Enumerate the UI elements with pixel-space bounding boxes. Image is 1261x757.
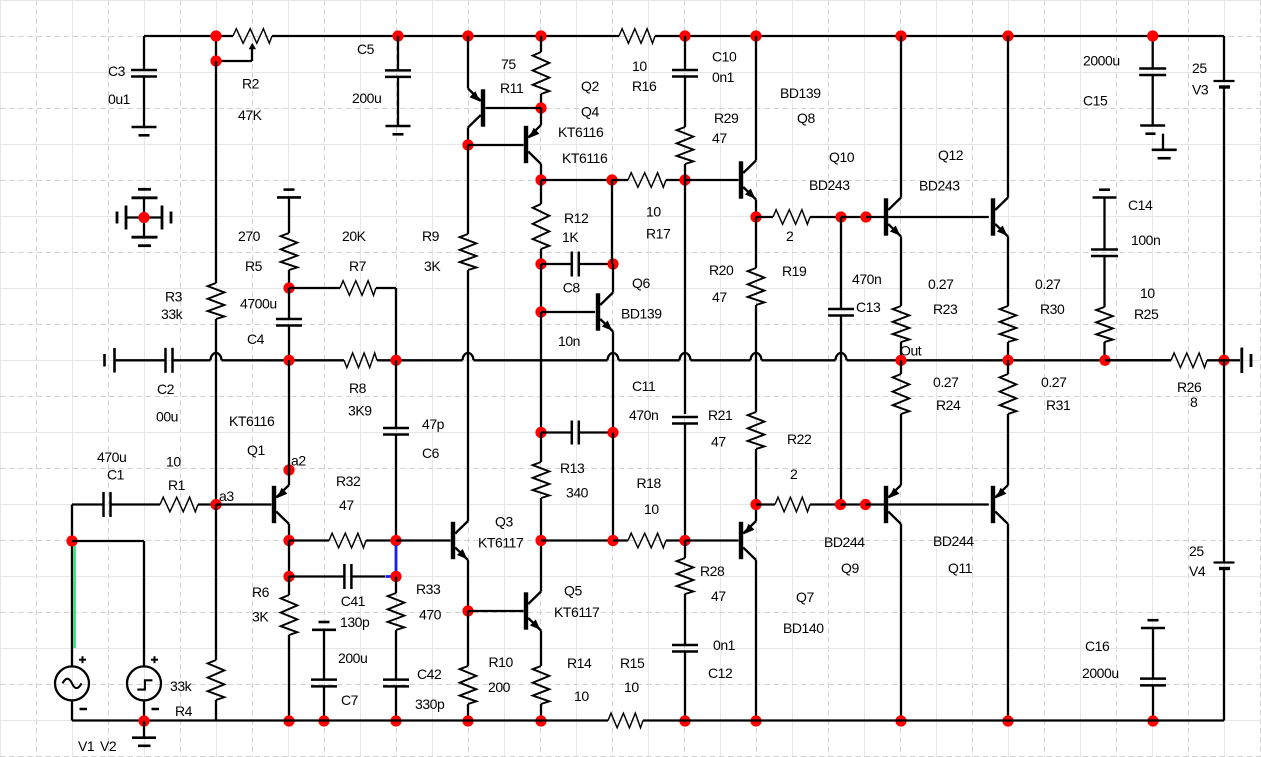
label 47 (R20)	[712, 289, 727, 305]
svg-text:75: 75	[501, 56, 516, 72]
wire Q4 node to R17 node	[541, 179, 612, 181]
node Q10C/top rail	[895, 30, 906, 41]
node C12/rail	[679, 715, 690, 726]
wire C2 to rail	[173, 359, 211, 361]
label 330p	[415, 696, 445, 712]
svg-text:C4: C4	[247, 331, 265, 347]
label C16	[1085, 638, 1110, 654]
inverted ground (C14)	[1093, 190, 1117, 198]
svg-text:100n: 100n	[1131, 232, 1160, 248]
wire Q6 collector	[612, 264, 614, 293]
wire Q8 emitter	[755, 200, 757, 218]
label 10 (R1)	[166, 454, 181, 470]
label Q5	[564, 583, 582, 599]
svg-text:V3: V3	[1192, 82, 1209, 98]
wire R17 node down	[684, 180, 686, 414]
node C8 right	[607, 258, 618, 269]
label R11	[500, 80, 524, 96]
capacitor C8	[541, 252, 613, 277]
label R20	[709, 262, 734, 278]
wire Q5 base	[468, 610, 524, 612]
wire R9 to Q3 collector	[467, 270, 469, 521]
label 200u (C5)	[352, 90, 381, 106]
resistor R14	[533, 631, 550, 721]
resistor R29	[677, 127, 694, 180]
svg-text:R10: R10	[489, 654, 514, 670]
label C2	[157, 381, 175, 397]
label 10 (R18)	[644, 501, 659, 517]
svg-text:R9: R9	[422, 228, 440, 244]
wire Q7 base	[685, 539, 739, 541]
svg-text:200u: 200u	[352, 90, 381, 106]
star ground symbol	[117, 189, 171, 245]
wire C8 node down to Q6 base node	[540, 264, 542, 312]
svg-text:R30: R30	[1040, 301, 1065, 317]
label 470 (R33)	[419, 607, 442, 623]
capacitor C13	[828, 217, 854, 505]
wire Q6 emitter down	[612, 332, 614, 433]
node Q8C/top rail	[750, 30, 761, 41]
wire bottom supply rail	[72, 719, 1224, 721]
svg-text:R32: R32	[336, 473, 361, 489]
ground (V2)	[132, 721, 156, 746]
svg-text:C13: C13	[856, 299, 881, 315]
svg-text:R6: R6	[252, 584, 270, 600]
svg-text:R12: R12	[564, 210, 589, 226]
wire V4 to bottom rail	[1223, 570, 1225, 721]
svg-text:0n1: 0n1	[713, 637, 736, 653]
resistor R17	[612, 173, 685, 188]
label 270	[238, 228, 261, 244]
label BD243 (Q10)	[809, 177, 850, 193]
svg-text:R4: R4	[175, 703, 193, 719]
wire rail to a2	[288, 360, 290, 470]
capacitor C7	[311, 631, 337, 721]
node star ground	[138, 212, 149, 223]
node R2 wiper	[210, 55, 221, 66]
node C16/rail	[1147, 715, 1158, 726]
node V1/V2 stub	[66, 535, 77, 546]
svg-text:C8: C8	[563, 280, 581, 296]
label R31	[1046, 397, 1071, 413]
label a2	[291, 453, 306, 469]
wire Q10/Q12 base link	[888, 216, 989, 218]
transistor Q3 (KT6117 NPN)	[451, 521, 468, 560]
label BD139 (Q6)	[621, 306, 662, 322]
node V2/rail	[138, 715, 149, 726]
node Q8E/R19/R20	[750, 211, 761, 222]
label Q11	[948, 560, 973, 576]
label C1	[107, 467, 125, 483]
wire Q12 collector	[1007, 36, 1009, 198]
label C42	[417, 666, 442, 682]
transistor Q10 (BD243 NPN)	[884, 198, 901, 237]
node C41 right	[390, 571, 401, 582]
label 100n	[1131, 232, 1160, 248]
resistor R3	[208, 283, 225, 319]
transistor Q7 (BD140 PNP)	[739, 521, 756, 560]
svg-text:Out: Out	[900, 343, 922, 359]
label R13	[560, 460, 585, 476]
svg-text:10: 10	[646, 204, 661, 220]
label R17	[646, 226, 671, 242]
label BD244 (Q11)	[933, 533, 974, 549]
transistor Q9 (BD244 PNP)	[884, 485, 901, 524]
svg-text:Q9: Q9	[841, 560, 859, 576]
capacitor C5	[385, 36, 411, 125]
wire top rail to V3	[1223, 36, 1225, 80]
svg-text:340: 340	[566, 485, 589, 501]
wire Q10 collector	[900, 36, 902, 198]
label 200u (C7)	[338, 650, 367, 666]
node Q5C/R18 row	[535, 535, 546, 546]
label 20K	[342, 228, 367, 244]
node C4/rail	[283, 355, 294, 366]
svg-text:33k: 33k	[170, 678, 193, 694]
wire out node to V4	[1223, 360, 1225, 561]
wire rail R8 to C6	[377, 359, 463, 361]
resistor R25	[1096, 307, 1113, 360]
label 47K	[238, 107, 263, 123]
node Q1C/R32	[283, 535, 294, 546]
svg-text:10: 10	[1140, 285, 1155, 301]
wire R17-C8 link	[611, 180, 613, 264]
resistor R22	[756, 497, 841, 512]
node C15/rail	[1147, 30, 1158, 41]
node R19/C13	[835, 211, 846, 222]
node Q9 base	[860, 499, 871, 510]
label Out	[900, 343, 922, 359]
resistor R23	[893, 237, 910, 361]
node R14/rail	[535, 715, 546, 726]
node R22/C13	[835, 499, 846, 510]
label R26	[1177, 379, 1202, 395]
svg-text:0.27: 0.27	[1041, 374, 1067, 390]
label R24	[936, 397, 961, 413]
svg-text:470n: 470n	[629, 407, 658, 423]
label 33k (R3)	[161, 306, 184, 322]
resistor R18	[613, 533, 685, 548]
label 47 (R29)	[712, 130, 727, 146]
svg-text:47p: 47p	[422, 416, 445, 432]
capacitor C4	[276, 288, 302, 360]
capacitor C14	[1091, 199, 1118, 308]
wire VAS column crossing rail	[540, 312, 542, 433]
node R30/R31	[1002, 355, 1013, 366]
label 0.27 (R31)	[1041, 374, 1067, 390]
svg-text:Q3: Q3	[495, 514, 513, 530]
label R33	[416, 581, 441, 597]
svg-text:330p: 330p	[415, 696, 445, 712]
label BD244 (Q9)	[824, 534, 865, 550]
svg-text:BD140: BD140	[783, 620, 824, 636]
capacitor C16	[1140, 629, 1166, 721]
label 130p	[340, 614, 370, 630]
svg-text:Q11: Q11	[948, 560, 973, 576]
label C13	[856, 299, 881, 315]
wire Q4 collector	[540, 164, 542, 180]
svg-text:2: 2	[790, 466, 798, 482]
capacitor C11	[672, 417, 698, 540]
label Q8	[797, 110, 815, 126]
svg-text:200u: 200u	[338, 650, 367, 666]
svg-text:R2: R2	[242, 76, 260, 92]
label 470n (C11)	[629, 407, 658, 423]
wire V3 to out node	[1223, 88, 1225, 360]
node R17 left	[606, 174, 617, 185]
inverted ground (R5)	[277, 190, 301, 198]
transistor Q2 (KT6116 PNP)	[468, 89, 485, 128]
wire hop at R9 column	[463, 353, 608, 360]
wire node to R7	[289, 287, 340, 289]
label R15	[620, 655, 645, 671]
wire R5 to C4	[288, 270, 290, 288]
svg-text:00u: 00u	[156, 409, 178, 425]
node Q7C/rail	[750, 715, 761, 726]
wire Q9/Q11 base link	[888, 503, 989, 505]
svg-text:130p: 130p	[340, 614, 370, 630]
label 4700u	[240, 296, 277, 312]
wire Q1C to C41	[288, 541, 290, 577]
wire Q3b row link	[541, 539, 613, 541]
wire hop at Q6 column	[608, 353, 680, 360]
label BD139 (Q8)	[780, 85, 821, 101]
label 10 (R17)	[646, 204, 661, 220]
wire C9 right down	[612, 433, 614, 541]
wire R11 to Q4 emitter	[540, 108, 542, 125]
wire V1 highlighted (green)	[73, 546, 76, 648]
node a2	[283, 464, 294, 475]
resistor R32	[289, 533, 396, 548]
node Q6 base	[535, 306, 546, 317]
label R21	[708, 407, 733, 423]
label KT6116 (Q2)	[558, 124, 604, 140]
capacitor C1	[72, 492, 111, 517]
svg-text:C11: C11	[632, 378, 656, 394]
svg-text:R25: R25	[1134, 306, 1159, 322]
label R16	[632, 78, 657, 94]
node R18 left	[607, 535, 618, 546]
resistor R21	[748, 412, 765, 505]
resistor R5	[281, 233, 298, 270]
svg-text:10: 10	[644, 501, 659, 517]
wire Q5 collector up	[540, 541, 542, 592]
svg-text:270: 270	[238, 228, 261, 244]
wire V1 to rail	[71, 700, 73, 721]
wire Q9 collector	[900, 524, 902, 721]
capacitor C42	[383, 630, 409, 721]
svg-text:R7: R7	[349, 258, 367, 274]
source V2 (step)	[127, 656, 161, 709]
wire R2 wiper to R3	[215, 61, 217, 283]
label KT6116 (Q4)	[562, 150, 608, 166]
svg-text:C10: C10	[712, 49, 737, 65]
label 47 (R21)	[711, 434, 726, 450]
label BD243 (Q12)	[919, 178, 960, 194]
label 470u (C1)	[97, 449, 126, 465]
transistor Q8 (BD139 NPN)	[739, 161, 756, 200]
label 0u1	[108, 91, 131, 107]
label 0n1 (C12)	[713, 637, 736, 653]
label 3K (R6)	[252, 609, 269, 625]
transistor Q12 (BD243 NPN)	[991, 198, 1008, 237]
svg-text:2000u: 2000u	[1083, 53, 1120, 69]
svg-text:Q5: Q5	[564, 583, 582, 599]
svg-text:R3: R3	[165, 289, 183, 305]
label 1K	[562, 229, 579, 245]
label R8	[349, 380, 367, 396]
node Q5 base	[462, 605, 473, 616]
svg-text:R20: R20	[709, 262, 734, 278]
svg-text:R17: R17	[646, 226, 671, 242]
wire V2 to rail	[143, 700, 145, 721]
transistor Q1 (KT6116 PNP)	[272, 485, 289, 524]
svg-text:R18: R18	[637, 475, 662, 491]
svg-text:R28: R28	[700, 563, 725, 579]
label 10 (R15)	[624, 679, 639, 695]
wire link2	[841, 503, 866, 505]
label C11	[632, 378, 656, 394]
svg-text:0.27: 0.27	[928, 276, 954, 292]
transistor Q11 (BD244 PNP)	[991, 485, 1008, 524]
node Q9C/rail	[895, 715, 906, 726]
label Q4	[581, 104, 599, 120]
svg-text:R11: R11	[500, 80, 524, 96]
svg-text:10: 10	[574, 688, 589, 704]
label R30	[1040, 301, 1065, 317]
label Q2	[581, 78, 599, 94]
wire hop at R20 column	[751, 353, 836, 360]
svg-text:BD244: BD244	[933, 533, 974, 549]
label R7	[349, 258, 367, 274]
svg-text:470u: 470u	[97, 449, 126, 465]
svg-text:BD243: BD243	[919, 178, 960, 194]
svg-text:BD139: BD139	[780, 85, 821, 101]
label 2 (R19)	[786, 228, 794, 244]
label 10 (R16)	[632, 58, 647, 74]
node R18 right	[679, 535, 690, 546]
label 3K9	[348, 403, 372, 419]
label 75	[501, 56, 516, 72]
resistor R24	[893, 360, 910, 485]
svg-text:470n: 470n	[852, 271, 881, 287]
svg-text:Q6: Q6	[632, 275, 650, 291]
label R32	[336, 473, 361, 489]
wire gnd to R5	[288, 199, 290, 234]
svg-text:KT6117: KT6117	[478, 535, 524, 551]
node Out	[895, 355, 906, 366]
label 0.27 (R24)	[933, 374, 959, 390]
node R10/rail	[462, 715, 473, 726]
svg-text:Q4: Q4	[581, 104, 599, 120]
wire top supply rail	[144, 35, 1224, 37]
label R25	[1134, 306, 1159, 322]
resistor R2 (47K potentiometer)	[216, 29, 272, 61]
svg-text:C41: C41	[341, 593, 366, 609]
label C4	[247, 331, 265, 347]
wire hop at C11 column	[680, 353, 751, 360]
svg-text:Q2: Q2	[581, 78, 599, 94]
wire Q8 collector	[755, 36, 757, 161]
svg-text:25: 25	[1189, 543, 1204, 559]
svg-text:47K: 47K	[238, 107, 263, 123]
wire selected (blue)	[386, 545, 397, 577]
label R28	[700, 563, 725, 579]
wire Q9 base	[866, 503, 885, 505]
resistor R31	[1000, 360, 1017, 485]
resistor R7	[340, 281, 376, 296]
svg-text:C2: C2	[157, 381, 175, 397]
capacitor C15	[1139, 36, 1166, 125]
resistor R13	[533, 433, 550, 541]
resistor R20	[748, 217, 765, 412]
label KT6117 (Q3)	[478, 535, 524, 551]
ground (C3)	[132, 127, 157, 135]
wire Q3 emitter down	[467, 560, 469, 611]
svg-text:Q12: Q12	[938, 147, 964, 163]
wire Q2 collector to Q4 base node	[467, 128, 469, 146]
label 25 (V4)	[1189, 543, 1204, 559]
svg-text:Q1: Q1	[247, 442, 265, 458]
node R11/Q2 base	[535, 102, 546, 113]
svg-text:R1: R1	[168, 477, 186, 493]
wire Q3 base	[396, 539, 451, 541]
label C3	[108, 63, 126, 79]
wire C1 corner to V1	[71, 505, 73, 667]
node R7/rail/C6	[390, 355, 401, 366]
wire C1 to R1	[111, 503, 160, 505]
label 2000u (C16)	[1082, 665, 1119, 681]
wire Q4 node to R9	[467, 145, 469, 234]
wire hop at C13 column	[836, 353, 1172, 360]
svg-text:4700u: 4700u	[240, 296, 277, 312]
label KT6116 (Q1)	[229, 413, 275, 429]
transistor Q4 (KT6116 PNP)	[524, 125, 541, 164]
battery V3	[1214, 81, 1235, 87]
ground (C15)	[1140, 126, 1177, 159]
label 47 (R32)	[339, 497, 354, 513]
svg-text:Q7: Q7	[796, 589, 814, 605]
resistor R6	[281, 577, 298, 721]
label Q9	[841, 560, 859, 576]
label R3	[165, 289, 183, 305]
label R1	[168, 477, 186, 493]
svg-text:C12: C12	[708, 665, 733, 681]
svg-text:10: 10	[166, 454, 181, 470]
node R25/rail	[1099, 355, 1110, 366]
capacitor C12	[672, 645, 698, 720]
label 0n1 (C10)	[712, 69, 735, 85]
svg-text:20K: 20K	[342, 228, 367, 244]
node Q11C/rail	[1002, 715, 1013, 726]
label 47 (R28)	[711, 588, 726, 604]
svg-text:0u1: 0u1	[108, 91, 131, 107]
wire Q6 base	[541, 311, 595, 313]
wire feedback rail	[211, 353, 345, 360]
wire a3 to R4	[215, 505, 217, 661]
label Q1	[247, 442, 265, 458]
svg-text:BD139: BD139	[621, 306, 662, 322]
wire Q1 collector	[288, 524, 290, 541]
svg-text:C1: C1	[107, 467, 125, 483]
label R6	[252, 584, 270, 600]
capacitor C2	[166, 348, 173, 373]
node C9 right	[607, 427, 618, 438]
svg-text:C42: C42	[417, 666, 442, 682]
wire rail to Q2 emitter	[467, 36, 469, 89]
ground (C5)	[386, 126, 411, 134]
node C41 left	[283, 571, 294, 582]
